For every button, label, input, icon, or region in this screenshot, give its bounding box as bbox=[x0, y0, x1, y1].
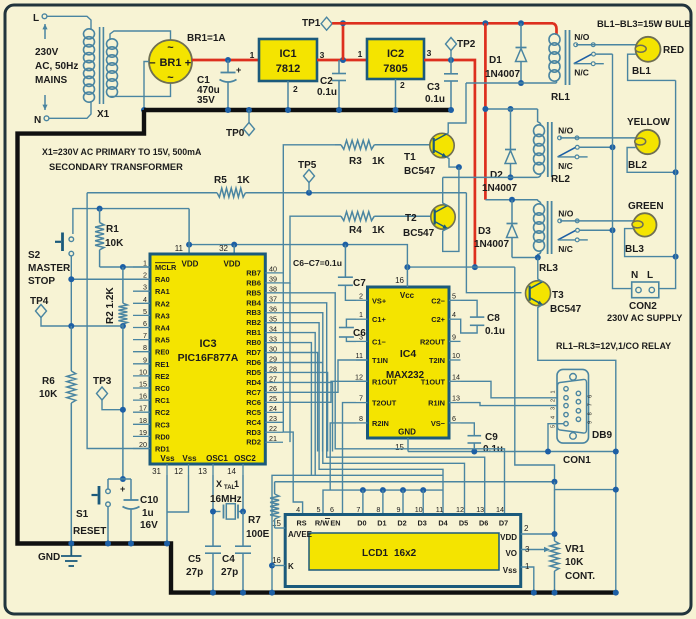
svg-text:2: 2 bbox=[293, 84, 298, 94]
svg-text:21: 21 bbox=[269, 434, 277, 443]
svg-text:A/VEE: A/VEE bbox=[288, 530, 313, 539]
wire 5V step to CON1 vertical bbox=[555, 482, 616, 490]
regulator IC1 7812 bbox=[250, 39, 325, 81]
svg-text:14: 14 bbox=[496, 505, 504, 514]
wire R5 right to T3 base bbox=[466, 193, 521, 293]
svg-text:RC0: RC0 bbox=[155, 384, 170, 393]
svg-text:X: X bbox=[216, 479, 222, 489]
svg-text:OSC2: OSC2 bbox=[234, 454, 256, 463]
IC3 bottom pin 14 OSC2 bbox=[227, 464, 243, 476]
IC3 pin 24 RC5 bbox=[246, 404, 283, 417]
junction C7 top bbox=[342, 242, 348, 248]
svg-text:13: 13 bbox=[452, 394, 460, 403]
LCD right pin 1 Vss bbox=[503, 562, 534, 593]
svg-text:C9: C9 bbox=[485, 432, 498, 443]
junction K line ground bbox=[269, 563, 275, 569]
svg-text:14: 14 bbox=[227, 467, 236, 476]
IC4 pin 9 R2OUT bbox=[420, 332, 461, 346]
relay RL3 pole arm bbox=[558, 228, 580, 239]
svg-text:VDD: VDD bbox=[224, 260, 241, 269]
svg-text:0.1u: 0.1u bbox=[485, 326, 505, 337]
IC3 pin 4 RA2 bbox=[133, 295, 170, 309]
svg-text:14: 14 bbox=[452, 372, 460, 381]
svg-text:10K: 10K bbox=[39, 389, 58, 400]
wire RB7 to R3 bbox=[283, 145, 335, 273]
svg-text:RL1–RL3=12V,1/CO RELAY: RL1–RL3=12V,1/CO RELAY bbox=[556, 341, 671, 351]
label 230V AC 50Hz MAINS bbox=[35, 47, 78, 86]
svg-text:MAINS: MAINS bbox=[35, 75, 68, 86]
IC4 pin 6 VS− bbox=[431, 414, 461, 428]
svg-text:D3: D3 bbox=[418, 519, 427, 528]
svg-text:9: 9 bbox=[397, 505, 401, 514]
IC3 pin 33 RB0 bbox=[246, 334, 283, 347]
svg-text:RESET: RESET bbox=[73, 526, 106, 537]
wire D3 stub bbox=[422, 490, 424, 514]
IC3 pin 28 RD5 bbox=[246, 364, 283, 377]
svg-text:N/C: N/C bbox=[574, 68, 589, 78]
capacitor C8 0.1u bbox=[461, 300, 506, 337]
junction D1 gnd bbox=[380, 487, 386, 493]
capacitor C2 0.1u bbox=[317, 60, 346, 110]
IC3 pin 18 RC3 bbox=[133, 416, 170, 430]
resistor R5 1K bbox=[87, 175, 466, 197]
svg-text:2: 2 bbox=[524, 524, 529, 533]
svg-text:31: 31 bbox=[152, 467, 161, 476]
wire L line vertical bbox=[659, 80, 676, 288]
wire R3 riser full bbox=[282, 273, 284, 432]
junction D3 gnd bbox=[420, 487, 426, 493]
microcontroller IC3 PIC16F877A bbox=[150, 254, 265, 464]
relay RL2 N/C contact bbox=[558, 155, 588, 171]
bridge rectifier BR1 bbox=[149, 40, 192, 84]
svg-text:19: 19 bbox=[139, 428, 147, 437]
IC4 pin 3 C1− bbox=[356, 332, 386, 346]
wire RD7 down bbox=[283, 353, 318, 452]
diode D1 1N4007 bbox=[485, 23, 527, 83]
svg-text:C2: C2 bbox=[320, 76, 333, 87]
mains down arrow bbox=[44, 95, 46, 110]
wire R2 bottom down to reset node bbox=[122, 324, 124, 479]
svg-text:VDD: VDD bbox=[500, 533, 517, 542]
IC3 pin 8 RE0 bbox=[133, 343, 169, 357]
IC4 pin 2 VS+ bbox=[356, 291, 387, 305]
svg-text:12: 12 bbox=[456, 505, 464, 514]
relay RL3 core bbox=[548, 201, 552, 254]
junction TP4 S2 line bbox=[68, 323, 74, 329]
svg-text:D0: D0 bbox=[357, 519, 366, 528]
junction IC2 pin2 bus bbox=[393, 107, 399, 113]
junction OSC1 crystal bbox=[210, 509, 216, 515]
svg-text:12: 12 bbox=[174, 467, 183, 476]
svg-text:MASTER: MASTER bbox=[28, 263, 71, 274]
wire IC2 pin2 to bus bbox=[395, 79, 397, 110]
svg-text:D2: D2 bbox=[490, 170, 503, 181]
junction C1 bottom bus bbox=[225, 107, 231, 113]
IC3 pin 38 RB5 bbox=[246, 285, 283, 298]
svg-text:16x2: 16x2 bbox=[394, 548, 417, 559]
wire RL3 top feed bbox=[485, 199, 537, 201]
bulb BL1 RED bbox=[635, 37, 660, 62]
svg-text:D1: D1 bbox=[489, 55, 502, 66]
svg-text:GREEN: GREEN bbox=[628, 201, 664, 212]
svg-text:RD7: RD7 bbox=[246, 348, 261, 357]
test point TP0 bbox=[226, 107, 255, 139]
svg-text:5: 5 bbox=[551, 425, 557, 428]
svg-text:R2OUT: R2OUT bbox=[420, 337, 446, 346]
svg-text:X1: X1 bbox=[97, 109, 110, 120]
junction D2 anode bbox=[508, 174, 514, 180]
resistor R3 1K bbox=[335, 140, 386, 167]
svg-text:R2IN: R2IN bbox=[372, 419, 389, 428]
svg-text:8: 8 bbox=[376, 505, 380, 514]
junction D0 gnd bbox=[360, 487, 366, 493]
IC3 pin 37 RB4 bbox=[246, 295, 283, 308]
svg-text:25: 25 bbox=[269, 394, 277, 403]
ic IC4 MAX232 bbox=[368, 287, 450, 438]
svg-text:R1IN: R1IN bbox=[428, 399, 445, 408]
svg-text:AC, 50Hz: AC, 50Hz bbox=[35, 61, 78, 72]
svg-text:0.1u: 0.1u bbox=[425, 94, 445, 105]
IC3 pin 30 RD7 bbox=[246, 344, 283, 357]
capacitor C9 0.1u bbox=[461, 423, 504, 455]
svg-text:RD0: RD0 bbox=[155, 432, 170, 441]
svg-text:1: 1 bbox=[250, 50, 255, 60]
wire OSC2 riser bbox=[242, 475, 244, 512]
node L mains live terminal bbox=[33, 13, 47, 24]
svg-text:BC547: BC547 bbox=[404, 166, 436, 177]
svg-text:RL3: RL3 bbox=[539, 263, 558, 274]
wire OSC1 riser bbox=[212, 475, 214, 546]
svg-text:3: 3 bbox=[551, 407, 557, 410]
wire T1 collector to RL1 bbox=[447, 83, 467, 134]
svg-text:1: 1 bbox=[143, 259, 147, 268]
svg-text:RA2: RA2 bbox=[155, 299, 170, 308]
svg-text:10: 10 bbox=[139, 367, 147, 376]
svg-text:10K: 10K bbox=[565, 557, 584, 568]
svg-text:7: 7 bbox=[359, 394, 363, 403]
capacitor C6 0.1u bbox=[339, 319, 366, 341]
IC4 pin 8 R2IN bbox=[356, 414, 389, 428]
svg-text:3: 3 bbox=[320, 50, 325, 60]
wire ground return line bbox=[272, 475, 443, 592]
wire RL1 N/O to bulb BL1 bbox=[576, 44, 636, 46]
svg-text:+: + bbox=[120, 484, 125, 494]
wire RB6 to R4 bbox=[283, 216, 341, 283]
LCD pin stubs top bbox=[0, 0, 1, 1]
capacitor C7 0.1u bbox=[338, 245, 366, 301]
wire RD3 to LCD RS bbox=[283, 432, 303, 514]
svg-text:6: 6 bbox=[588, 395, 594, 398]
switch S1 reset bbox=[92, 479, 111, 544]
junction LCD VDD line bbox=[552, 531, 558, 537]
svg-text:Vss: Vss bbox=[503, 566, 518, 575]
resistor R7 100E bbox=[246, 482, 279, 540]
svg-text:1: 1 bbox=[234, 479, 239, 489]
svg-text:26: 26 bbox=[269, 384, 277, 393]
svg-text:6: 6 bbox=[143, 319, 147, 328]
LCD right pin 2 VDD bbox=[500, 524, 554, 542]
transistor T2 BC547 bbox=[431, 205, 455, 229]
IC3 pin 34 RB1 bbox=[246, 324, 283, 337]
svg-text:36: 36 bbox=[269, 305, 277, 314]
IC4 pin 11 T1IN bbox=[356, 351, 388, 365]
svg-text:9: 9 bbox=[588, 421, 594, 424]
wire IC1 out to IC2 in red bbox=[317, 59, 367, 62]
svg-text:GND: GND bbox=[38, 552, 60, 563]
DB9 pin 9 right column bbox=[576, 417, 580, 421]
svg-text:RL1: RL1 bbox=[551, 92, 570, 103]
IC3 pin 3 RA1 bbox=[133, 283, 170, 297]
wire L to transformer primary bbox=[47, 16, 91, 30]
svg-text:~: ~ bbox=[167, 42, 174, 54]
bulb BL3 GREEN bbox=[632, 213, 657, 236]
junction Vss GND bus bbox=[164, 541, 170, 547]
wire VDD to S2 and R1 bbox=[73, 209, 189, 234]
DB9 pin 2 left column bbox=[564, 396, 568, 400]
junction VDD pin11 riser bbox=[186, 242, 192, 248]
svg-text:1: 1 bbox=[551, 390, 557, 393]
svg-text:T2IN: T2IN bbox=[429, 356, 445, 365]
DB9 pin 3 left column bbox=[564, 403, 568, 407]
svg-text:1N4007: 1N4007 bbox=[485, 69, 520, 80]
test point TP5 bbox=[298, 160, 317, 196]
svg-text:RC4: RC4 bbox=[246, 418, 262, 427]
svg-text:15: 15 bbox=[272, 519, 281, 528]
IC3 bottom pin 31 Vss bbox=[152, 464, 167, 476]
connector DB9 CON1 bbox=[557, 369, 589, 443]
svg-text:38: 38 bbox=[269, 285, 277, 294]
wire pin11 riser bbox=[188, 245, 190, 254]
wire red 12V top rail bbox=[332, 22, 553, 25]
svg-text:RC5: RC5 bbox=[246, 408, 261, 417]
svg-text:RB4: RB4 bbox=[246, 298, 262, 307]
svg-text:C10: C10 bbox=[140, 495, 159, 506]
svg-text:15: 15 bbox=[395, 443, 404, 452]
svg-text:N/C: N/C bbox=[558, 161, 573, 171]
IC3 pin 5 RA3 bbox=[133, 307, 170, 321]
IC3 pin 40 RB7 bbox=[246, 265, 283, 278]
wire LCD RW D0-D3 ground bus bbox=[323, 490, 443, 514]
svg-text:4: 4 bbox=[296, 505, 300, 514]
relay RL2 pole arm bbox=[558, 145, 580, 156]
junction C5 GND bbox=[210, 590, 216, 596]
svg-text:RD3: RD3 bbox=[246, 428, 261, 437]
IC4 pin 10 T2IN bbox=[429, 351, 461, 365]
DB9 pin numbers right bbox=[588, 395, 594, 424]
svg-text:D4: D4 bbox=[438, 519, 448, 528]
wire RL3 N/O to bulb BL3 bbox=[560, 220, 634, 222]
svg-text:37: 37 bbox=[269, 295, 277, 304]
svg-text:BR1=1A: BR1=1A bbox=[187, 33, 226, 44]
wire T2 collector to RL2 line bbox=[443, 177, 448, 205]
svg-text:1: 1 bbox=[358, 49, 363, 59]
svg-text:BR1: BR1 bbox=[159, 57, 181, 69]
junction CON1 right bbox=[613, 449, 619, 455]
svg-text:4: 4 bbox=[452, 310, 456, 319]
label S1 RESET bbox=[73, 509, 106, 537]
junction RL2 pole N line bbox=[610, 144, 616, 150]
svg-text:13: 13 bbox=[476, 505, 484, 514]
relay RL1 N/O contact bbox=[574, 32, 595, 46]
wire 5V to MAX232 Vcc and down-feed bbox=[407, 266, 514, 268]
svg-text:RC2: RC2 bbox=[155, 408, 170, 417]
svg-text:RB6: RB6 bbox=[246, 278, 261, 287]
wire red BR1+ to IC1 bbox=[192, 59, 259, 62]
junction TP2 C3 bbox=[448, 57, 454, 63]
capacitor C4 27p bbox=[221, 512, 251, 593]
junction IC1 pin2 bus bbox=[285, 107, 291, 113]
junction D2 gnd bbox=[400, 487, 406, 493]
relay RL2 core bbox=[548, 122, 552, 177]
svg-text:RD6: RD6 bbox=[246, 358, 261, 367]
svg-text:22: 22 bbox=[269, 424, 277, 433]
junction BL2 return L line bbox=[673, 169, 679, 175]
junction R2 bottom TP4 line bbox=[120, 323, 126, 329]
svg-text:−: − bbox=[149, 58, 155, 70]
svg-text:40: 40 bbox=[269, 265, 277, 274]
svg-text:D6: D6 bbox=[479, 519, 488, 528]
svg-text:34: 34 bbox=[269, 324, 277, 333]
svg-text:TP2: TP2 bbox=[457, 39, 476, 50]
svg-text:TP5: TP5 bbox=[298, 160, 317, 171]
svg-text:D3: D3 bbox=[478, 226, 491, 237]
IC3 bottom pin 12 Vss bbox=[174, 464, 188, 476]
svg-text:12: 12 bbox=[355, 372, 363, 381]
relay RL2 coil bbox=[534, 109, 545, 177]
junction MAX232 Vcc bbox=[404, 264, 410, 270]
svg-text:LCD1: LCD1 bbox=[362, 548, 389, 559]
wire RL3 coil bottom to D3 bbox=[512, 257, 538, 259]
svg-text:28: 28 bbox=[269, 364, 277, 373]
svg-text:D5: D5 bbox=[459, 519, 468, 528]
wire red 12V down-feed for RL2 RL3 bbox=[484, 23, 487, 199]
connector CON2 230V AC supply bbox=[607, 270, 682, 323]
svg-text:7812: 7812 bbox=[276, 63, 300, 75]
svg-text:CONT.: CONT. bbox=[565, 571, 595, 582]
DB9 pin 8 right column bbox=[576, 409, 580, 413]
svg-text:16: 16 bbox=[139, 392, 147, 401]
svg-text:10K: 10K bbox=[105, 238, 124, 249]
svg-text:RL2: RL2 bbox=[551, 174, 570, 185]
wire secondary bottom to BR1 bbox=[110, 84, 171, 97]
resistor R2 1.2K bbox=[105, 267, 127, 324]
svg-text:+: + bbox=[236, 65, 241, 75]
svg-text:6: 6 bbox=[452, 414, 456, 423]
svg-text:4: 4 bbox=[143, 295, 147, 304]
svg-text:YELLOW: YELLOW bbox=[627, 117, 670, 128]
svg-text:T2: T2 bbox=[405, 213, 417, 224]
DB9 pin 7 right column bbox=[576, 400, 580, 404]
svg-text:30: 30 bbox=[269, 344, 277, 353]
svg-text:2: 2 bbox=[551, 399, 557, 402]
wire BL2 return to L line bbox=[627, 148, 676, 173]
svg-text:RB1: RB1 bbox=[246, 328, 261, 337]
svg-text:R4: R4 bbox=[349, 225, 362, 236]
svg-text:D7: D7 bbox=[499, 519, 508, 528]
relay RL3 N/C contact bbox=[558, 238, 588, 254]
junction R1 top bbox=[97, 206, 103, 212]
wire black 0V bus top bbox=[144, 108, 451, 112]
IC4 pin 16 Vcc stub bbox=[395, 267, 407, 287]
junction C4 GND bbox=[240, 590, 246, 596]
junction C9 GND line bbox=[471, 449, 477, 455]
IC3 pin 21 RD2 bbox=[246, 434, 283, 447]
svg-text:10: 10 bbox=[452, 351, 460, 360]
svg-text:T2OUT: T2OUT bbox=[372, 399, 397, 408]
junction D3 top bbox=[509, 197, 515, 203]
test point TP1 bbox=[302, 17, 332, 30]
junction right vertical bbox=[613, 487, 619, 493]
wire RL2 top feed bbox=[485, 108, 537, 110]
IC3 pin 15 RC0 bbox=[133, 380, 170, 394]
svg-text:10: 10 bbox=[415, 505, 423, 514]
svg-text:27p: 27p bbox=[221, 567, 238, 578]
svg-text:VDD: VDD bbox=[182, 260, 199, 269]
svg-text:7: 7 bbox=[588, 403, 594, 406]
svg-text:7: 7 bbox=[143, 331, 147, 340]
svg-text:13: 13 bbox=[198, 467, 207, 476]
svg-text:D1: D1 bbox=[377, 519, 386, 528]
svg-text:BC547: BC547 bbox=[403, 228, 435, 239]
junction D2 top bbox=[508, 106, 514, 112]
relay RL1 coil bbox=[549, 23, 560, 83]
junction DB9 gnd bbox=[545, 449, 551, 455]
svg-text:DB9: DB9 bbox=[592, 430, 612, 441]
transistor T1 BC547 bbox=[430, 133, 454, 157]
svg-text:N: N bbox=[631, 270, 638, 281]
svg-text:T1: T1 bbox=[404, 152, 416, 163]
wire RL1 pole to N line bbox=[596, 53, 613, 55]
wire BL3 return to L line bbox=[625, 229, 676, 257]
IC3 pin 27 RD4 bbox=[246, 374, 283, 387]
svg-text:RC3: RC3 bbox=[155, 420, 170, 429]
junction Vss bus bbox=[531, 590, 537, 596]
svg-text:RA1: RA1 bbox=[155, 287, 170, 296]
diode D2 1N4007 bbox=[482, 109, 517, 194]
wire Vss pin12 jog bbox=[167, 475, 189, 512]
svg-text:BL1: BL1 bbox=[632, 66, 651, 77]
svg-text:15: 15 bbox=[139, 380, 147, 389]
junction D1 anode bbox=[518, 80, 524, 86]
svg-text:16: 16 bbox=[395, 276, 404, 285]
svg-text:17: 17 bbox=[139, 404, 147, 413]
svg-text:C5: C5 bbox=[188, 554, 201, 565]
svg-text:Vss: Vss bbox=[160, 454, 175, 463]
svg-text:R6: R6 bbox=[42, 376, 55, 387]
svg-text:BL3: BL3 bbox=[625, 244, 644, 255]
svg-text:CON2: CON2 bbox=[629, 301, 657, 312]
IC3 pin 22 RD3 bbox=[246, 424, 283, 437]
wire RD5 down bbox=[283, 372, 328, 451]
node N mains neutral terminal bbox=[34, 115, 49, 126]
junction BR1 minus bus bbox=[141, 107, 147, 113]
junction BL3 return L line bbox=[673, 254, 679, 260]
svg-text:X1=230V AC PRIMARY TO 15V, 50: X1=230V AC PRIMARY TO 15V, 500mA bbox=[42, 147, 202, 157]
svg-text:TP1: TP1 bbox=[302, 18, 321, 29]
wire RB2 to LCD D4 bbox=[283, 323, 443, 515]
svg-text:8: 8 bbox=[588, 412, 594, 415]
test point TP3 bbox=[93, 376, 123, 410]
junction D1 top rail bbox=[518, 20, 524, 26]
junction RL3 pole N line bbox=[610, 227, 616, 233]
svg-text:RD1: RD1 bbox=[155, 445, 170, 454]
svg-text:RA5: RA5 bbox=[155, 336, 170, 345]
svg-text:VR1: VR1 bbox=[565, 544, 585, 555]
svg-text:C3: C3 bbox=[427, 82, 440, 93]
wire N line vertical bbox=[613, 54, 632, 289]
junction RL3 coil bottom bbox=[535, 255, 541, 261]
relay RL3 N/O contact bbox=[558, 208, 579, 222]
